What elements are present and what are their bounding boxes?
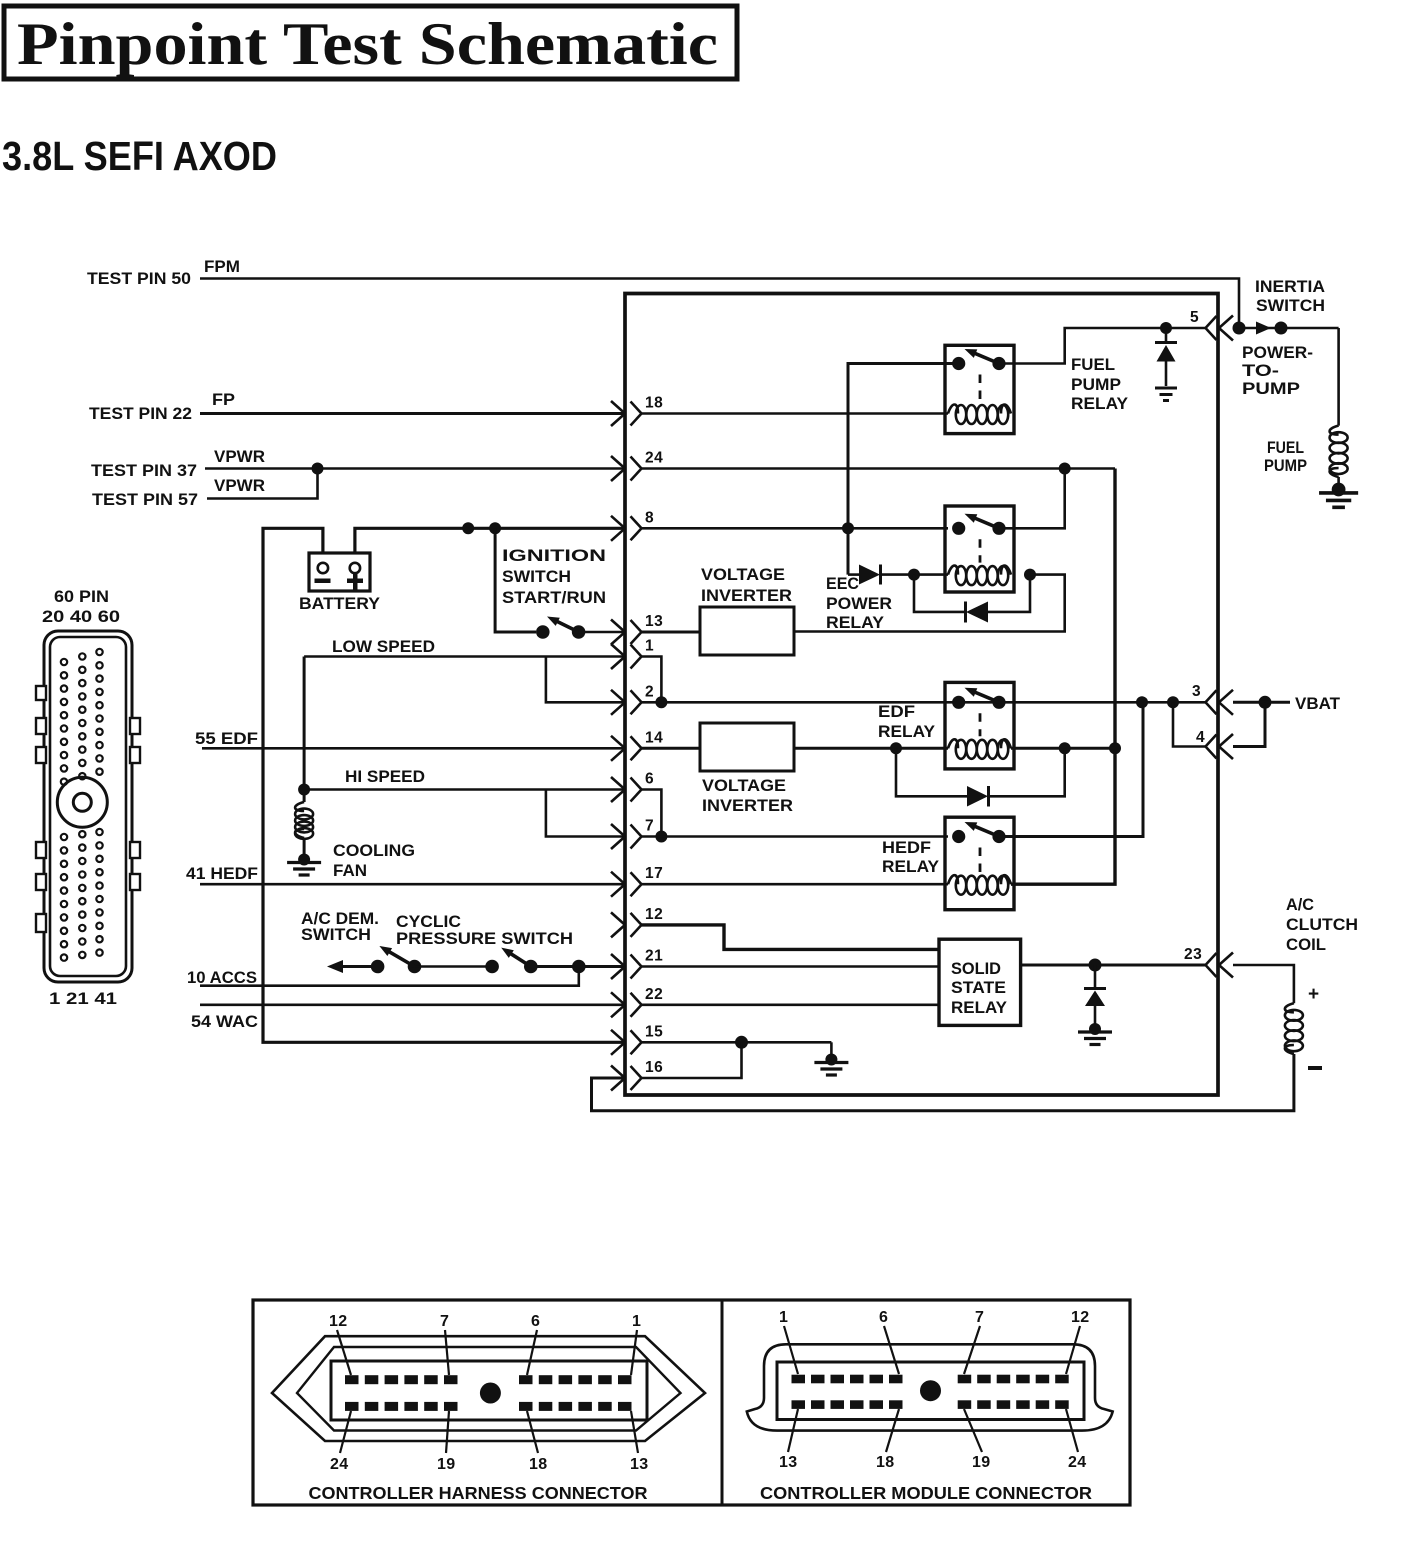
- label TEST PIN 37: [91, 462, 197, 480]
- svg-text:SWITCH: SWITCH: [301, 926, 371, 944]
- wire VPWR vertical feed: [1011, 469, 1115, 885]
- wire pin 24 VPWR: [642, 467, 1116, 470]
- svg-text:EDF: EDF: [878, 703, 915, 721]
- label FUEL PUMP (motor): [1264, 439, 1307, 475]
- wire FP to pin 18: [200, 412, 623, 415]
- svg-text:PRESSURE SWITCH: PRESSURE SWITCH: [396, 930, 573, 948]
- 60 pin connector pin holes: [61, 649, 103, 961]
- voltage inverter U1 box: [700, 607, 794, 655]
- svg-text:TEST PIN 57: TEST PIN 57: [92, 491, 198, 509]
- svg-text:CONTROLLER HARNESS CONNECTOR: CONTROLLER HARNESS CONNECTOR: [309, 1483, 648, 1503]
- label 10 ACCS: [187, 969, 257, 987]
- wire voltage inverter U2 to EDF relay coil: [794, 747, 948, 750]
- label IGNITION SWITCH START/RUN: [502, 547, 606, 607]
- junction pins 15-16: [735, 1036, 748, 1049]
- label HI SPEED: [345, 768, 425, 786]
- connector pin 15: [611, 1023, 663, 1055]
- junction battery feed B: [489, 522, 501, 534]
- diode D3 EEC coil freewheel: [914, 575, 1030, 623]
- svg-text:18: 18: [876, 1454, 894, 1471]
- svg-text:SOLID: SOLID: [951, 960, 1001, 978]
- wire HI SPEED to pin 6: [304, 788, 623, 791]
- svg-text:60 PIN: 60 PIN: [54, 588, 109, 606]
- harness pin labels top: [329, 1313, 641, 1330]
- svg-text:3: 3: [1192, 683, 1201, 700]
- label CONTROLLER HARNESS CONNECTOR: [309, 1483, 648, 1503]
- label CYCLIC PRESSURE SWITCH: [396, 913, 573, 948]
- svg-text:RELAY: RELAY: [826, 614, 884, 632]
- svg-text:22: 22: [645, 986, 663, 1003]
- ignition switch contact right: [572, 625, 586, 639]
- connector pin 8: [611, 509, 654, 541]
- label EEC POWER RELAY: [826, 575, 892, 632]
- junction pins 6-7: [655, 831, 667, 843]
- connector pin 16: [611, 1059, 663, 1091]
- fuel pump motor coil: [1330, 426, 1348, 477]
- wire EEC relay output riser: [999, 469, 1065, 529]
- wire LOW SPEED branch to pin 2: [546, 657, 623, 703]
- wire pin 13 to voltage inverter U1: [642, 631, 701, 634]
- module pin labels top: [779, 1309, 1089, 1326]
- wire 10 ACCS riser: [200, 967, 579, 986]
- svg-text:21: 21: [645, 948, 663, 965]
- wire fuel pump to ground: [1337, 477, 1340, 486]
- cyclic pressure switch contact left: [485, 960, 499, 974]
- connector pin 14: [611, 729, 663, 761]
- controller harness box: [625, 294, 1218, 1096]
- label TEST PIN 50: [87, 270, 191, 288]
- harness connector key: [480, 1383, 501, 1404]
- svg-text:TEST PIN 50: TEST PIN 50: [87, 270, 191, 288]
- wire pin 1 tie to pin 2: [642, 657, 662, 703]
- net VPWR label (pin 57): [214, 477, 265, 495]
- label SOLID STATE RELAY: [951, 960, 1007, 1017]
- module connector pins: [792, 1375, 1069, 1409]
- junction pin 5 node at diode: [1160, 322, 1172, 334]
- connector pin 23: [1184, 946, 1233, 978]
- junction VBAT: [1259, 696, 1272, 709]
- junction battery feed A: [462, 522, 474, 534]
- wire solid state relay output to pin 23: [1021, 964, 1206, 967]
- fuel pump relay K1: [945, 345, 1014, 433]
- svg-text:POWER: POWER: [826, 595, 892, 613]
- label VBAT: [1295, 695, 1340, 713]
- diode D1 clamp at pin 5 node: [1155, 328, 1177, 386]
- diode D2 EEC coil feed: [848, 565, 948, 585]
- A/C demand switch contact left: [371, 960, 385, 974]
- voltage inverter U2 box: [700, 723, 794, 771]
- wire VBAT to pin 4: [1233, 702, 1265, 746]
- label A/C DEM. SWITCH: [301, 910, 379, 944]
- svg-text:13: 13: [779, 1454, 797, 1471]
- svg-text:VOLTAGE: VOLTAGE: [701, 566, 785, 584]
- svg-text:HEDF: HEDF: [882, 839, 931, 857]
- EEC power relay K2: [945, 506, 1014, 592]
- svg-text:55 EDF: 55 EDF: [195, 730, 258, 748]
- junction VPWR at EEC relay output: [1059, 463, 1071, 475]
- wire pin 8 to EEC power relay: [642, 527, 949, 530]
- label LOW SPEED: [332, 638, 435, 656]
- junction VBAT rail to HEDF relay: [1136, 696, 1148, 708]
- label HEDF RELAY: [882, 839, 939, 876]
- svg-text:PUMP: PUMP: [1071, 376, 1121, 394]
- ignition switch blade: [547, 617, 579, 633]
- svg-text:7: 7: [975, 1309, 984, 1326]
- ignition switch contact left: [536, 625, 550, 639]
- A/C demand switch contact right: [408, 960, 422, 974]
- svg-text:5: 5: [1190, 309, 1199, 326]
- ground below diode D1: [1155, 388, 1177, 401]
- wire pin 4 internal tie: [1173, 702, 1206, 746]
- svg-text:18: 18: [645, 395, 663, 412]
- wire HI SPEED branch to pin 7: [546, 790, 623, 837]
- wire cyclic pressure switch to pin 21: [531, 965, 623, 968]
- svg-text:7: 7: [645, 818, 654, 835]
- svg-text:RELAY: RELAY: [1071, 395, 1128, 413]
- svg-text:TEST PIN 22: TEST PIN 22: [89, 405, 192, 423]
- module pin leaders bottom: [788, 1409, 1078, 1452]
- svg-text:VPWR: VPWR: [214, 477, 265, 495]
- connector pin 17: [611, 865, 663, 897]
- svg-text:COOLING: COOLING: [333, 842, 415, 860]
- connector pin 1: [611, 638, 654, 670]
- title box: [4, 6, 737, 79]
- svg-text:FP: FP: [212, 391, 235, 409]
- connector pin 3: [1192, 683, 1233, 715]
- svg-text:1 21 41: 1 21 41: [49, 990, 117, 1008]
- wire pin 14 to voltage inverter U2: [642, 747, 701, 750]
- harness connector insert: [331, 1361, 647, 1420]
- svg-text:13: 13: [630, 1456, 648, 1473]
- svg-text:+: +: [1308, 984, 1319, 1005]
- wire 54 WAC to pin 22: [200, 1003, 623, 1006]
- cyclic pressure switch contact right: [524, 960, 538, 974]
- wire HEDF to pin 17: [200, 883, 623, 886]
- harness pin leaders top: [337, 1330, 637, 1375]
- svg-text:17: 17: [645, 865, 663, 882]
- ground fuel pump: [1319, 483, 1358, 508]
- connector pin 22: [611, 986, 663, 1018]
- junction EEC coil right: [1024, 569, 1036, 581]
- svg-text:14: 14: [645, 729, 663, 746]
- svg-text:CYCLIC: CYCLIC: [396, 913, 461, 931]
- connector pin 5: [1190, 309, 1233, 341]
- net FPM label: [204, 258, 240, 276]
- module pin labels bottom: [779, 1454, 1086, 1471]
- junction EDF coil left: [890, 742, 902, 754]
- svg-text:18: 18: [529, 1456, 547, 1473]
- EDF relay K3: [945, 682, 1014, 769]
- junction HI SPEED tap: [298, 784, 310, 796]
- svg-text:24: 24: [330, 1456, 348, 1473]
- svg-text:20 40 60: 20 40 60: [42, 608, 120, 626]
- label INERTIA SWITCH: [1255, 278, 1325, 315]
- connector pin 13: [611, 613, 663, 645]
- wire pin 12 to solid state relay: [642, 925, 940, 950]
- svg-text:23: 23: [1184, 946, 1202, 963]
- svg-text:2: 2: [645, 683, 654, 700]
- label 41 HEDF: [186, 865, 258, 883]
- wire ignition switch to pin 13: [579, 631, 623, 634]
- junction pin 8 branch: [842, 522, 854, 534]
- svg-text:PUMP: PUMP: [1242, 380, 1300, 398]
- subtitle 3.8L SEFI AXOD: [2, 133, 277, 179]
- harness pin leaders bottom: [340, 1411, 638, 1453]
- junction solid state output: [1089, 959, 1102, 972]
- label POWER-TO-PUMP: [1242, 344, 1313, 398]
- svg-text:7: 7: [440, 1313, 449, 1330]
- svg-text:POWER-: POWER-: [1242, 344, 1313, 362]
- wire pin 22 to solid state relay: [642, 1003, 940, 1006]
- connector pin 2: [611, 683, 654, 715]
- wire EDF coil right: [1011, 747, 1115, 750]
- svg-text:PUMP: PUMP: [1264, 457, 1307, 475]
- svg-text:CONTROLLER MODULE CONNECTOR: CONTROLLER MODULE CONNECTOR: [760, 1483, 1092, 1503]
- label minus terminal: [1308, 1066, 1322, 1070]
- label BATTERY: [299, 594, 381, 613]
- svg-text:4: 4: [1196, 729, 1205, 746]
- wire pin 21 to solid state relay: [642, 965, 940, 968]
- svg-text:FUEL: FUEL: [1071, 356, 1115, 374]
- label CONTROLLER MODULE CONNECTOR: [760, 1483, 1092, 1503]
- connector pin 7: [611, 818, 654, 850]
- diode D4 EDF coil freewheel: [896, 748, 1065, 806]
- label plus terminal: [1308, 984, 1319, 1005]
- svg-text:VBAT: VBAT: [1295, 695, 1340, 713]
- svg-text:LOW SPEED: LOW SPEED: [332, 638, 435, 656]
- junction VBAT rail to pin 4: [1167, 696, 1179, 708]
- svg-text:INVERTER: INVERTER: [702, 797, 793, 815]
- A/C clutch coil L1: [1285, 1003, 1303, 1054]
- svg-text:CLUTCH: CLUTCH: [1286, 916, 1358, 934]
- wire LOW SPEED to pin 1: [304, 655, 623, 658]
- connector pin 18: [611, 395, 663, 427]
- wire pin 15 to internal ground: [642, 1041, 832, 1044]
- svg-text:TO-: TO-: [1242, 362, 1279, 380]
- svg-text:EEC: EEC: [826, 575, 859, 593]
- svg-text:12: 12: [1071, 1309, 1089, 1326]
- wire battery negative to pin 15: [263, 528, 623, 1042]
- svg-text:6: 6: [645, 771, 654, 788]
- net VPWR label (pin 37): [214, 448, 265, 466]
- junction ACCS tap: [572, 960, 586, 974]
- wire pin 6 tie to pin 7: [642, 790, 662, 837]
- cooling fan motor coil: [295, 802, 313, 839]
- connector panel box: [253, 1300, 1130, 1505]
- 60 pin connector key circle: [57, 777, 107, 827]
- svg-text:41 HEDF: 41 HEDF: [186, 865, 258, 883]
- battery positive terminal: [347, 563, 363, 590]
- wire pin 18 to fuel pump relay coil: [642, 412, 949, 415]
- battery negative terminal: [315, 563, 331, 583]
- svg-text:10 ACCS: 10 ACCS: [187, 969, 257, 987]
- 60 pin connector body: [36, 631, 140, 982]
- svg-text:6: 6: [531, 1313, 540, 1330]
- diode D5 clamp at A/C clutch node: [1084, 965, 1106, 1026]
- label TEST PIN 22: [89, 405, 192, 423]
- wire VBAT to pin 3: [1233, 701, 1290, 704]
- svg-text:15: 15: [645, 1023, 663, 1040]
- wire fuel pump relay feed riser: [848, 364, 959, 575]
- connector pin 24: [611, 450, 663, 482]
- wire pin 7 to HEDF relay contact: [642, 835, 949, 838]
- svg-text:RELAY: RELAY: [882, 858, 939, 876]
- svg-text:1: 1: [645, 638, 654, 655]
- wire HEDF contact output to VBAT rail: [999, 702, 1143, 836]
- label A/C CLUTCH COIL: [1286, 896, 1358, 954]
- junction EDF coil right: [1059, 742, 1071, 754]
- svg-text:TEST PIN 37: TEST PIN 37: [91, 462, 197, 480]
- inertia switch symbol: [1256, 322, 1271, 335]
- junction pins 1-2: [655, 696, 667, 708]
- wire pin 23 to A/C clutch coil: [1233, 965, 1294, 1003]
- HEDF relay K4: [945, 817, 1014, 910]
- label TEST PIN 57: [92, 491, 198, 509]
- label 60 PIN: [54, 588, 109, 606]
- svg-text:1: 1: [632, 1313, 641, 1330]
- label COOLING FAN: [333, 842, 415, 880]
- wire to chassis ground: [830, 1042, 833, 1056]
- ground cooling fan: [287, 854, 321, 876]
- svg-text:BATTERY: BATTERY: [299, 594, 381, 613]
- wire cooling fan to ground: [303, 838, 306, 856]
- svg-text:SWITCH: SWITCH: [1256, 297, 1325, 315]
- wire EDF to pin 14: [202, 747, 623, 750]
- wire VPWR 57 joining pin 37 wire: [207, 469, 318, 499]
- svg-text:HI SPEED: HI SPEED: [345, 768, 425, 786]
- module pin leaders top: [784, 1326, 1080, 1374]
- voltage inverter U2 label: [702, 777, 793, 815]
- svg-text:START/RUN: START/RUN: [502, 589, 606, 607]
- svg-text:FAN: FAN: [333, 862, 367, 880]
- ground pins 15/16: [814, 1054, 848, 1076]
- harness pin labels bottom: [330, 1456, 648, 1473]
- label 1 21 41: [49, 990, 117, 1008]
- svg-text:13: 13: [645, 613, 663, 630]
- wire battery to ignition switch: [495, 528, 536, 632]
- module connector key: [920, 1380, 941, 1401]
- svg-text:16: 16: [645, 1059, 663, 1076]
- module connector insert: [777, 1362, 1084, 1420]
- svg-text:INVERTER: INVERTER: [701, 587, 792, 605]
- label 54 WAC: [191, 1013, 258, 1031]
- wire pin 16 tie: [642, 1042, 742, 1078]
- junction EEC coil left: [908, 569, 920, 581]
- svg-text:8: 8: [645, 509, 654, 526]
- junction VPWR 37/57: [312, 463, 324, 475]
- svg-text:INERTIA: INERTIA: [1255, 278, 1325, 296]
- svg-text:6: 6: [879, 1309, 888, 1326]
- svg-text:54 WAC: 54 WAC: [191, 1013, 258, 1031]
- svg-text:IGNITION: IGNITION: [502, 547, 606, 565]
- A/C demand switch blade: [379, 946, 414, 967]
- svg-text:FUEL: FUEL: [1267, 439, 1304, 457]
- wire fuel pump relay output: [999, 328, 1205, 364]
- wire to A/C demand switch with left arrow: [327, 960, 378, 973]
- wire FPM from TEST PIN 50 to power-to-pump node: [200, 279, 1239, 323]
- wire A/C demand to cyclic pressure switch: [415, 965, 493, 968]
- svg-text:24: 24: [645, 450, 663, 467]
- svg-text:12: 12: [329, 1313, 347, 1330]
- solid state relay U3 box: [939, 939, 1021, 1025]
- wire A/C clutch coil return to pin 16: [592, 1054, 1294, 1111]
- wire cooling fan feed: [303, 657, 306, 803]
- wire pin 5 to inertia switch: [1233, 327, 1339, 330]
- wire VPWR to pin 24: [205, 467, 623, 470]
- svg-text:1: 1: [779, 1309, 788, 1326]
- ground below diode D5: [1078, 1023, 1112, 1045]
- svg-text:FPM: FPM: [204, 258, 240, 276]
- svg-text:19: 19: [437, 1456, 455, 1473]
- svg-text:A/C: A/C: [1286, 896, 1314, 914]
- battery B1 body: [309, 553, 370, 591]
- junction inertia switch output: [1275, 322, 1288, 335]
- module connector shell: [747, 1344, 1113, 1430]
- svg-text:COIL: COIL: [1286, 936, 1326, 954]
- connector pin 21: [611, 948, 663, 980]
- svg-text:12: 12: [645, 906, 663, 923]
- voltage inverter U1 label: [701, 566, 792, 605]
- svg-text:VPWR: VPWR: [214, 448, 265, 466]
- svg-text:RELAY: RELAY: [951, 999, 1007, 1017]
- label EDF RELAY: [878, 703, 935, 741]
- harness connector pins: [345, 1375, 632, 1411]
- wire pin 2 to pin 3 VBAT rail: [642, 701, 1206, 704]
- svg-text:SWITCH: SWITCH: [502, 568, 571, 586]
- connector pin 4: [1196, 729, 1233, 759]
- wire power to fuel pump: [1337, 328, 1340, 426]
- svg-text:VOLTAGE: VOLTAGE: [702, 777, 786, 795]
- svg-text:24: 24: [1068, 1454, 1086, 1471]
- svg-text:3.8L SEFI AXOD: 3.8L SEFI AXOD: [2, 133, 277, 179]
- label FUEL PUMP RELAY: [1071, 356, 1128, 413]
- label 20 40 60: [42, 608, 120, 626]
- connector pin 6: [611, 771, 654, 803]
- svg-text:RELAY: RELAY: [878, 723, 935, 741]
- wire battery positive to pin 8: [355, 528, 623, 553]
- connector pin 12: [611, 906, 663, 938]
- svg-text:19: 19: [972, 1454, 990, 1471]
- harness connector shell: [272, 1336, 705, 1441]
- wire EEC coil right to voltage inverter: [794, 575, 1065, 632]
- svg-text:STATE: STATE: [951, 979, 1006, 997]
- label 55 EDF: [195, 730, 258, 748]
- junction FPM tap: [1233, 322, 1246, 335]
- junction VPWR to EDF coil line: [1109, 742, 1121, 754]
- net FP label: [212, 391, 235, 409]
- cyclic pressure switch blade: [501, 948, 531, 967]
- wire pin 17 to HEDF relay coil: [642, 883, 949, 886]
- svg-text:Pinpoint Test Schematic: Pinpoint Test Schematic: [17, 11, 718, 77]
